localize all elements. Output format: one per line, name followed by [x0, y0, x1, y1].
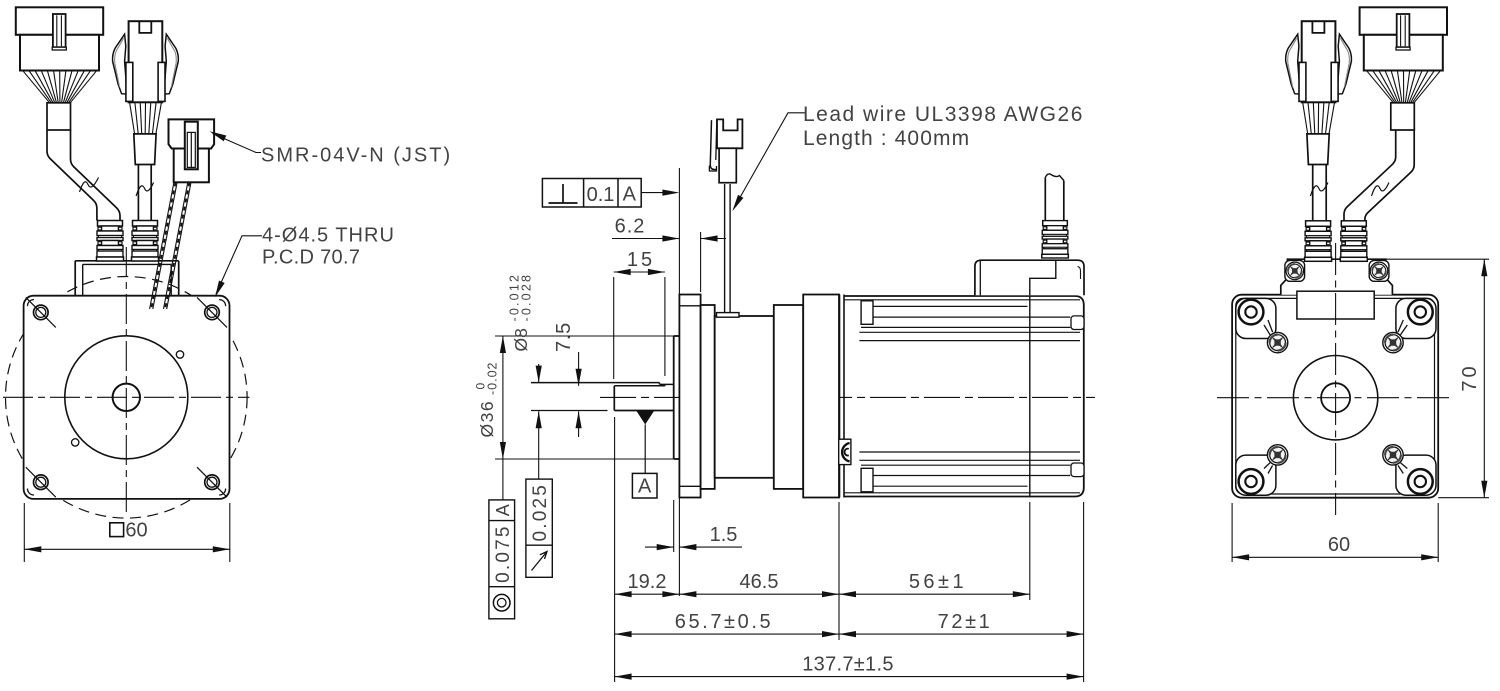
grommet: rear view left cable: [1305, 221, 1332, 261]
extension lines: bottom dimension chain: [614, 417, 616, 682]
rear cable with break cut: [1045, 174, 1064, 221]
connector: encoder connector (big, top-left): [16, 7, 103, 130]
front view: shaft hole dia 8: [113, 384, 140, 411]
front view: pilot boss circle dia 36: [65, 336, 188, 459]
front view: P.C.D 70.7 dashed bolt circle: [6, 277, 248, 519]
rear view: nameplate window: [1297, 291, 1374, 319]
dimension: 6.2 flange thickness: [612, 216, 726, 242]
rear view: elbow cable from big connector: [1344, 128, 1396, 221]
svg-text:-0.02: -0.02: [486, 362, 500, 396]
connector: lead wire connector (SMR housing side view): [709, 119, 742, 182]
dimension: 137.7 overall: [615, 653, 1084, 679]
rear view: mound screw pads with phillips screws: [1285, 260, 1305, 281]
svg-text:15: 15: [627, 249, 655, 271]
side view: rear cable cover: [975, 260, 1084, 295]
rear view: connector mound on top: [1281, 259, 1393, 295]
extension line: flange rear face: [700, 232, 702, 292]
connector: rear view power connector: [1286, 21, 1352, 164]
svg-text:19.2: 19.2: [628, 571, 667, 593]
rear view: 4x phillips assembly screws: [1267, 332, 1287, 352]
front view: connector housing platform on motor top: [75, 261, 179, 296]
side view: gearhead cylinder section: [715, 316, 774, 478]
front view: corner relief arcs: [27, 300, 34, 307]
svg-text:Ø8: Ø8: [511, 328, 531, 351]
side view: motor internal winding lines top: [844, 300, 1080, 341]
svg-text:SMR-04V-N (JST): SMR-04V-N (JST): [261, 145, 452, 167]
leader: 4-dia4.5 THRU / P.C.D 70.7 label: [216, 236, 262, 294]
sensor twisted-pair wires to motor: [150, 182, 191, 309]
svg-text:Length : 400mm: Length : 400mm: [803, 127, 970, 150]
svg-text:4-Ø4.5 THRU: 4-Ø4.5 THRU: [262, 225, 395, 247]
svg-text:P.C.D 70.7: P.C.D 70.7: [262, 247, 360, 269]
svg-text:6.2: 6.2: [615, 216, 646, 238]
side view: center line: [600, 396, 1095, 398]
datum A box: [632, 473, 657, 498]
extension line: boss face for 1.5: [673, 500, 675, 552]
grommet: rear cable gland: [1042, 221, 1069, 258]
side view: rear end-bell line: [1029, 296, 1031, 497]
rear view: center lines: [1217, 397, 1449, 399]
svg-text:60: 60: [1328, 534, 1350, 556]
label: dia 36 tolerance rotated: [474, 362, 500, 438]
dimension: 15 shaft flat length: [614, 249, 665, 379]
side view: gearhead ring section: [701, 305, 715, 489]
svg-text:56±1: 56±1: [909, 571, 967, 593]
rear view: motor square body: [1232, 295, 1438, 498]
rear view: straight cable with break: [1312, 162, 1314, 221]
svg-text:60: 60: [125, 520, 147, 542]
svg-text:A: A: [623, 184, 637, 206]
dimension: dia 8 shaft vertical: [531, 364, 542, 479]
rear view: bearing boss circle: [1293, 356, 1377, 440]
dimension: 65.7 / 72 chain: [615, 611, 1084, 637]
datum A triangle on shaft: [637, 411, 655, 425]
svg-text:Lead wire UL3398 AWG26: Lead wire UL3398 AWG26: [803, 103, 1084, 126]
side view: output shaft dia 8 with flat: [531, 383, 674, 411]
svg-text:A: A: [493, 504, 513, 516]
side view: motor internal winding lines bottom: [844, 452, 1080, 493]
front view: small index holes: [176, 351, 183, 358]
dimension: 60 width: [1232, 503, 1438, 562]
side view: gearhead front ring: [774, 305, 803, 489]
svg-text:Ø36: Ø36: [477, 400, 497, 438]
front view: center lines: [3, 396, 250, 398]
rear view: shaft rear circle: [1321, 383, 1350, 412]
leader: SMR-04V-N (JST) label: [213, 134, 262, 153]
connector: rear view encoder connector: [1360, 7, 1447, 130]
grommet: encoder cable strain relief: [97, 221, 124, 262]
side view: right side bumps: [1071, 316, 1084, 330]
front view: 4x mounting holes dia 4.5 with 45deg ticks: [26, 297, 56, 327]
grommet: motor cable strain relief: [132, 221, 159, 262]
dimension: 19.2 / 46.5 / 56 chain: [615, 571, 1030, 597]
svg-text:7.5: 7.5: [553, 322, 575, 352]
side view: retaining clip detail: [839, 439, 851, 464]
svg-text:70: 70: [1459, 363, 1481, 391]
svg-text:0.075: 0.075: [493, 524, 514, 583]
connector: SMR-04V-N JST sensor connector: [169, 119, 215, 182]
svg-text:-0.028: -0.028: [520, 273, 534, 322]
side view: gearbox/motor interface lines: [839, 295, 841, 498]
label: dia 8 tolerance rotated: [508, 273, 534, 352]
svg-text:0.025: 0.025: [530, 483, 551, 542]
side view: front mounting flange (6.2 thick): [679, 295, 700, 498]
svg-text:46.5: 46.5: [740, 571, 779, 593]
svg-text:137.7±1.5: 137.7±1.5: [802, 653, 894, 675]
connector: motor power connector with latch wings: [113, 21, 179, 164]
side view: motor body outline: [844, 296, 1084, 497]
side view: pilot boss dia 36: [674, 336, 680, 459]
rear view: inner contour: [1236, 298, 1435, 494]
feature control frame: concentricity 0.075 A (rotated): [489, 500, 515, 619]
svg-text:A: A: [638, 475, 652, 497]
rear view: corner pads with socket bosses: [1236, 298, 1276, 338]
front view: motor square flange 60x60: [24, 296, 230, 499]
feature control frame: runout 0.025 (rotated): [526, 479, 552, 577]
svg-text:72±1: 72±1: [938, 611, 993, 633]
dimension: square 60 width: [23, 503, 25, 562]
dimension: dia 36 vertical with extension lines: [495, 336, 674, 500]
dimension: 70 overall height: [1386, 259, 1489, 498]
dimension: 7.5 flat height vertical: [553, 322, 582, 437]
side view: lead wire terminal and wire: [717, 184, 740, 317]
svg-text:0.1: 0.1: [587, 184, 615, 206]
motor cable straight with break mark: [137, 165, 139, 221]
feature control frame: perpendicularity 0.1 A: [542, 179, 679, 208]
side view: gearbox case: [803, 295, 839, 498]
dimension: 1.5 boss height: [645, 524, 742, 550]
encoder cable with elbow and break mark: [47, 130, 97, 220]
grommet: rear view right cable: [1340, 221, 1367, 261]
leader: Lead wire UL3398 AWG26 / Length 400mm: [734, 113, 806, 208]
extension line: flange front face (datum area): [678, 168, 680, 596]
svg-text:65.7±0.5: 65.7±0.5: [675, 611, 774, 633]
svg-text:1.5: 1.5: [710, 524, 738, 546]
